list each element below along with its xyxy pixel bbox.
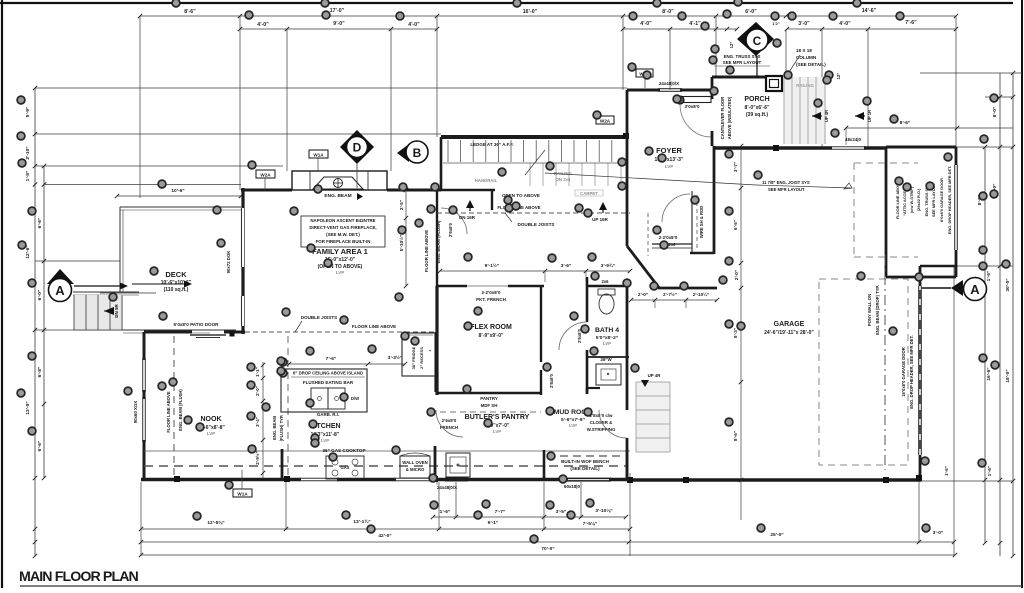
svg-text:GARAGE: GARAGE bbox=[774, 321, 805, 328]
wall oven box bbox=[400, 456, 430, 478]
svg-text:2x6: 2x6 bbox=[602, 279, 610, 284]
svg-text:CANTILEVER FLOOR: CANTILEVER FLOOR bbox=[720, 97, 725, 140]
svg-text:SEE MFR LAYOUT: SEE MFR LAYOUT bbox=[768, 187, 805, 192]
svg-text:10’-6”: 10’-6” bbox=[171, 188, 185, 194]
svg-text:1’-8”: 1’-8” bbox=[25, 170, 31, 181]
svg-text:3’-9¾”: 3’-9¾” bbox=[601, 262, 616, 269]
stair bottom dimension line bbox=[440, 270, 630, 272]
svg-text:(SEE DETAIL): (SEE DETAIL) bbox=[570, 466, 600, 471]
svg-text:NAPOLEON ASCENT B42NTRE: NAPOLEON ASCENT B42NTRE bbox=[310, 218, 375, 223]
svg-text:GARB. R.I.: GARB. R.I. bbox=[317, 412, 339, 417]
svg-text:ENG. BEAM (DROP) TYP.: ENG. BEAM (DROP) TYP. bbox=[875, 285, 880, 335]
svg-text:6’-6”: 6’-6” bbox=[37, 440, 43, 451]
svg-text:2-2’0x8’0: 2-2’0x8’0 bbox=[659, 235, 678, 240]
svg-text:ABOVE (INSULATED): ABOVE (INSULATED) bbox=[727, 96, 732, 139]
svg-text:3’0x8’0: 3’0x8’0 bbox=[684, 104, 700, 109]
sheet border top bbox=[0, 2, 1013, 4]
svg-text:8’-6”: 8’-6” bbox=[733, 431, 738, 441]
bath dim row bbox=[631, 299, 717, 301]
butler sink bbox=[446, 453, 470, 477]
toilet bbox=[598, 289, 615, 295]
svg-text:FLOOR LINE ABOVE: FLOOR LINE ABOVE bbox=[424, 230, 429, 272]
svg-text:UP 1R: UP 1R bbox=[867, 110, 872, 122]
family-flex dimension column bbox=[405, 190, 407, 286]
svg-text:ENG. DROP HEADER, SEE MFR DET.: ENG. DROP HEADER, SEE MFR DET. bbox=[909, 335, 914, 408]
top dimension line row2 centre bbox=[623, 28, 737, 30]
svg-text:PORCH: PORCH bbox=[744, 96, 769, 103]
svg-text:4’-0”: 4’-0” bbox=[257, 22, 269, 28]
bath south wall bbox=[586, 388, 589, 394]
svg-text:3’-0”: 3’-0” bbox=[798, 21, 810, 27]
svg-text:W.STRIPPING: W.STRIPPING bbox=[587, 427, 616, 432]
section marker D bbox=[340, 130, 374, 164]
svg-text:ENG. BEAM (FLUSH): ENG. BEAM (FLUSH) bbox=[436, 220, 441, 263]
bottom dimension line 4 bbox=[141, 554, 955, 556]
svg-text:1’2”: 1’2” bbox=[772, 21, 780, 26]
garage right stall walls bbox=[885, 147, 888, 277]
left inner dimension line bbox=[43, 166, 45, 478]
garage attic dashed rectangle bbox=[819, 279, 908, 465]
svg-text:2’6x8’0: 2’6x8’0 bbox=[442, 418, 457, 423]
section marker C bbox=[737, 22, 774, 56]
svg-text:14’-6”: 14’-6” bbox=[862, 8, 877, 14]
deck stairs DN 5R bbox=[73, 291, 139, 293]
svg-text:2’6x8’0: 2’6x8’0 bbox=[448, 222, 453, 237]
section marker A left bbox=[47, 269, 74, 284]
svg-text:24’-6”/19’-11”x 28’-0”: 24’-6”/19’-11”x 28’-0” bbox=[764, 330, 814, 336]
svg-text:30’-0”: 30’-0” bbox=[1005, 278, 1011, 292]
right dimension line inner bbox=[984, 147, 986, 543]
svg-text:D/W: D/W bbox=[351, 396, 359, 401]
svg-text:(SEE DETAIL): (SEE DETAIL) bbox=[796, 62, 826, 67]
deck dimension 10-6 bbox=[117, 195, 241, 197]
svg-text:16’-0”: 16’-0” bbox=[523, 9, 538, 15]
svg-text:3’-6”: 3’-6” bbox=[561, 263, 572, 269]
svg-text:SEE MFR LAYOUT: SEE MFR LAYOUT bbox=[723, 60, 762, 65]
svg-text:W2A: W2A bbox=[600, 119, 611, 124]
family west window wall to deck bbox=[241, 188, 244, 208]
right dimension line mid bbox=[999, 73, 1001, 556]
svg-text:A: A bbox=[55, 283, 65, 298]
svg-text:WALL OVEN: WALL OVEN bbox=[402, 460, 427, 465]
svg-text:DIRECT-VENT GAS FIREPLACE,: DIRECT-VENT GAS FIREPLACE, bbox=[309, 225, 376, 230]
svg-text:3’-5”: 3’-5” bbox=[556, 509, 567, 515]
front door leaf bbox=[682, 97, 711, 103]
extension lines from top dims bbox=[139, 16, 141, 198]
stair west wall bbox=[440, 137, 443, 190]
butler window bbox=[445, 477, 468, 479]
svg-text:LEDGE AT 36” A.F.F.: LEDGE AT 36” A.F.F. bbox=[470, 142, 513, 147]
svg-text:3’-0”: 3’-0” bbox=[933, 530, 944, 536]
flex south wall bbox=[437, 392, 541, 395]
svg-text:(FLUSH) TYP.: (FLUSH) TYP. bbox=[279, 415, 284, 442]
svg-text:9’-1½”: 9’-1½” bbox=[485, 262, 500, 269]
svg-text:LVP: LVP bbox=[207, 431, 215, 436]
svg-text:8’-6”: 8’-6” bbox=[184, 9, 196, 15]
reference line upper bbox=[35, 87, 627, 89]
svg-text:UP 16R: UP 16R bbox=[592, 217, 608, 222]
svg-text:24x48|0/X: 24x48|0/X bbox=[437, 485, 457, 490]
mud bench walls bbox=[543, 450, 546, 481]
svg-text:12’-5⅜”: 12’-5⅜” bbox=[207, 520, 225, 526]
svg-text:FAMILY AREA 1: FAMILY AREA 1 bbox=[312, 247, 368, 256]
reference line deck mid bbox=[35, 260, 120, 262]
island sink bbox=[311, 388, 328, 409]
svg-text:12”: 12” bbox=[729, 42, 734, 49]
section marker B bbox=[397, 144, 409, 162]
svg-text:D: D bbox=[353, 141, 362, 155]
svg-text:25’-0”: 25’-0” bbox=[770, 532, 784, 538]
foyer hall dashed bbox=[647, 213, 649, 256]
kitchen west beam post wall bbox=[281, 449, 284, 478]
porch west wall bbox=[711, 77, 714, 99]
flex east wall bbox=[540, 286, 542, 362]
svg-text:16’-6”: 16’-6” bbox=[986, 367, 992, 381]
svg-text:4’-0”: 4’-0” bbox=[640, 21, 652, 27]
deck lower edge line bbox=[100, 292, 156, 294]
foyer bay angled wall bbox=[627, 246, 660, 289]
section marker A right bbox=[951, 280, 963, 296]
svg-text:36” GAS COOKTOP: 36” GAS COOKTOP bbox=[322, 448, 365, 453]
svg-text:1’-6”: 1’-6” bbox=[440, 509, 451, 515]
family east wall bbox=[436, 190, 438, 286]
svg-text:FOYER: FOYER bbox=[656, 146, 682, 155]
svg-text:4’-1”: 4’-1” bbox=[689, 21, 701, 27]
svg-text:WIRE SH & ROD: WIRE SH & ROD bbox=[699, 206, 704, 239]
svg-text:5’-10½”: 5’-10½” bbox=[398, 235, 404, 252]
bottom dimension line 1 bbox=[433, 516, 626, 518]
svg-text:7’-6”: 7’-6” bbox=[326, 356, 337, 362]
svg-text:6’-5”: 6’-5” bbox=[733, 220, 738, 230]
counter line bbox=[144, 450, 630, 452]
deck platform outline bbox=[120, 206, 241, 208]
svg-text:W1A: W1A bbox=[237, 492, 248, 497]
porch steps railing bbox=[784, 77, 826, 144]
svg-text:2’-7½”: 2’-7½” bbox=[663, 291, 677, 297]
stall garage door bbox=[954, 165, 956, 250]
up 4r arrow porch bbox=[812, 112, 821, 120]
svg-text:8’-6”: 8’-6” bbox=[900, 120, 911, 126]
svg-text:11 7/8” ENG. JOIST SYS: 11 7/8” ENG. JOIST SYS bbox=[762, 180, 810, 185]
svg-text:FLOOR LINE ABOVE: FLOOR LINE ABOVE bbox=[166, 391, 171, 432]
svg-text:2’-5”: 2’-5” bbox=[399, 200, 404, 210]
svg-text:DECK: DECK bbox=[165, 270, 187, 279]
svg-text:90x72 DOK: 90x72 DOK bbox=[226, 250, 231, 274]
svg-text:3’-10⅛”: 3’-10⅛” bbox=[595, 508, 613, 514]
reference line deck upper bbox=[44, 184, 241, 186]
svg-text:5’-9”: 5’-9” bbox=[25, 106, 31, 117]
tag W1A bottom bbox=[233, 489, 252, 497]
svg-text:9’-1”: 9’-1” bbox=[488, 520, 499, 526]
garage NE wall bbox=[920, 265, 956, 267]
post at stair-foyer junction bbox=[623, 133, 629, 139]
svg-text:BUILT-IN WOF BENCH: BUILT-IN WOF BENCH bbox=[561, 459, 609, 464]
svg-text:90x60 XOX: 90x60 XOX bbox=[133, 401, 138, 423]
svg-text:13’-1¾”: 13’-1¾” bbox=[353, 518, 371, 525]
svg-text:CARPET: CARPET bbox=[580, 191, 598, 196]
svg-text:2’-10”: 2’-10” bbox=[25, 146, 31, 160]
front door arc bbox=[680, 104, 711, 137]
svg-text:13’-0”: 13’-0” bbox=[25, 401, 31, 415]
nook north wall and patio door bbox=[144, 331, 192, 334]
svg-text:1’-6”: 1’-6” bbox=[944, 466, 949, 476]
svg-text:3’-7”: 3’-7” bbox=[733, 162, 738, 172]
reference line deck top bbox=[35, 165, 283, 167]
svg-text:PANTRY: PANTRY bbox=[480, 396, 498, 401]
garage south wall bbox=[629, 478, 921, 481]
svg-text:2’8x8’0 c/w: 2’8x8’0 c/w bbox=[590, 413, 614, 418]
svg-text:HANDRAIL: HANDRAIL bbox=[475, 178, 498, 183]
floor line above dashed family south bbox=[245, 331, 437, 333]
svg-text:12”: 12” bbox=[836, 73, 841, 80]
svg-text:8’-0”: 8’-0” bbox=[992, 106, 998, 117]
bottom dimension line 2 bbox=[141, 528, 630, 530]
oven side wall stub bbox=[434, 446, 437, 479]
svg-text:3’-4”: 3’-4” bbox=[255, 417, 260, 427]
svg-text:B: B bbox=[413, 146, 422, 160]
svg-text:ENG. BEAM (FLUSH): ENG. BEAM (FLUSH) bbox=[178, 389, 183, 431]
flex room north wall with pocket door bbox=[437, 285, 467, 288]
foyer north wall with window bbox=[627, 89, 660, 92]
svg-text:4’-0”: 4’-0” bbox=[839, 21, 851, 27]
svg-text:24x48|0/X: 24x48|0/X bbox=[659, 81, 679, 86]
svg-text:RAILING: RAILING bbox=[796, 83, 814, 88]
svg-text:FLUSHED EATING BAR: FLUSHED EATING BAR bbox=[303, 380, 354, 385]
south exterior wall bbox=[141, 478, 301, 481]
svg-text:2-2’0x8’0: 2-2’0x8’0 bbox=[481, 290, 501, 295]
svg-text:18’-0”: 18’-0” bbox=[1005, 369, 1011, 383]
svg-text:2’-0”: 2’-0” bbox=[255, 386, 260, 396]
svg-text:LVP: LVP bbox=[569, 423, 577, 428]
svg-text:2’-0”: 2’-0” bbox=[638, 292, 648, 297]
fireplace note box bbox=[301, 216, 385, 247]
svg-text:LVP: LVP bbox=[493, 429, 501, 434]
right horizontal extensions bbox=[956, 146, 1013, 148]
svg-text:LVP: LVP bbox=[665, 164, 673, 169]
svg-text:8’-3”: 8’-3” bbox=[733, 328, 738, 338]
svg-text:48x24|0: 48x24|0 bbox=[845, 137, 861, 142]
sheet border left bbox=[1, 0, 3, 588]
svg-text:60x18|0: 60x18|0 bbox=[564, 484, 580, 489]
stair break line bbox=[525, 150, 545, 175]
svg-text:1’-6”: 1’-6” bbox=[987, 465, 993, 476]
svg-text:GAS: GAS bbox=[340, 465, 349, 470]
stair treads bbox=[447, 140, 449, 162]
svg-text:2’-9½”: 2’-9½” bbox=[255, 451, 260, 464]
foyer closet bottom double door wall bbox=[652, 243, 692, 245]
stair landing wall bbox=[437, 189, 495, 192]
svg-text:7’-7”: 7’-7” bbox=[495, 509, 506, 515]
bottom extension verticals bbox=[140, 482, 142, 556]
reference line mid bbox=[35, 133, 441, 135]
svg-text:A: A bbox=[970, 282, 980, 297]
garage steps up 4r bbox=[636, 382, 670, 452]
svg-text:FLOOR LINE ABOVE: FLOOR LINE ABOVE bbox=[352, 324, 396, 329]
svg-text:2” RECESS: 2” RECESS bbox=[419, 347, 424, 369]
svg-text:9’-0”: 9’-0” bbox=[333, 21, 345, 27]
foyer west wall bbox=[626, 90, 629, 246]
svg-text:2x6: 2x6 bbox=[669, 242, 677, 247]
svg-text:18 X 18: 18 X 18 bbox=[796, 48, 812, 53]
svg-text:W2A: W2A bbox=[260, 173, 271, 178]
svg-text:7’-5⅛”: 7’-5⅛” bbox=[583, 521, 598, 527]
svg-text:4’-0”: 4’-0” bbox=[408, 22, 420, 28]
svg-text:7’-6”: 7’-6” bbox=[905, 20, 917, 26]
svg-text:1’-1”: 1’-1” bbox=[255, 367, 260, 377]
top dimension line row2 right bbox=[787, 28, 956, 30]
svg-text:LVP: LVP bbox=[336, 270, 344, 275]
pony wall dash-dot bbox=[884, 255, 886, 470]
section cut line left extension bbox=[132, 283, 186, 285]
foyer east wall bbox=[713, 146, 716, 254]
section cut line left bbox=[74, 285, 126, 287]
svg-text:(39 sq.ft.): (39 sq.ft.) bbox=[746, 112, 769, 118]
fridge recess bbox=[402, 333, 435, 376]
svg-text:(110 sq.ft.): (110 sq.ft.) bbox=[164, 287, 189, 293]
svg-text:BATH 4: BATH 4 bbox=[595, 327, 619, 334]
island dim line bbox=[289, 363, 405, 365]
upper cabinet dashed bbox=[144, 465, 627, 467]
left outer dimension line bbox=[34, 88, 36, 556]
tag W2A bbox=[256, 170, 275, 178]
svg-text:8’0x8’0 GARAGE DOOR: 8’0x8’0 GARAGE DOOR bbox=[939, 178, 944, 222]
svg-text:6’0x8’0 PATIO DOOR: 6’0x8’0 PATIO DOOR bbox=[173, 322, 219, 327]
svg-text:PONY WALL ON: PONY WALL ON bbox=[867, 294, 872, 326]
sheet border right bbox=[1021, 0, 1023, 588]
porch north wall bbox=[712, 76, 766, 79]
svg-text:ENG. BEAM: ENG. BEAM bbox=[324, 193, 351, 199]
svg-text:DN 5R: DN 5R bbox=[114, 304, 119, 318]
svg-text:MDF SH: MDF SH bbox=[481, 403, 498, 408]
svg-text:DOUBLE JOISTS: DOUBLE JOISTS bbox=[301, 315, 337, 320]
bath north wall bbox=[587, 285, 629, 288]
nook west wall with windows bbox=[143, 332, 146, 360]
svg-text:8’-0”x6’-6”: 8’-0”x6’-6” bbox=[744, 105, 770, 111]
svg-text:(SEE M.W. DET.): (SEE M.W. DET.) bbox=[326, 232, 360, 237]
family area north wall bbox=[241, 189, 292, 192]
mud room east wall with garage door bbox=[626, 286, 629, 410]
svg-text:NOOK: NOOK bbox=[201, 416, 222, 423]
bath door arc bbox=[559, 322, 587, 350]
svg-text:UP 4R: UP 4R bbox=[824, 110, 829, 122]
bath mud west wall bbox=[586, 277, 589, 322]
svg-text:MAIN FLOOR PLAN: MAIN FLOOR PLAN bbox=[19, 569, 139, 585]
tag W2A foyer bbox=[596, 116, 614, 124]
svg-text:8’-0”: 8’-0” bbox=[662, 9, 674, 15]
svg-text:6” DROP CEILING ABOVE ISLAND: 6” DROP CEILING ABOVE ISLAND bbox=[293, 371, 363, 376]
fireplace enclosure bbox=[292, 171, 387, 190]
nook-kitchen dim column bbox=[262, 362, 264, 478]
garage upper attic dashed area bbox=[853, 163, 855, 257]
svg-text:6’-0”: 6’-0” bbox=[745, 9, 757, 15]
svg-text:W1A: W1A bbox=[313, 153, 324, 158]
svg-text:36” FRIDGE: 36” FRIDGE bbox=[411, 346, 416, 369]
garage east wall with garage door bbox=[919, 266, 922, 286]
svg-text:FOR FIREPLACE BUILT-IN: FOR FIREPLACE BUILT-IN bbox=[316, 239, 371, 244]
fireplace unit bbox=[313, 177, 363, 189]
mud dashed floor bbox=[547, 455, 622, 457]
svg-text:8’-9”x9’-0”: 8’-9”x9’-0” bbox=[478, 333, 504, 339]
svg-text:ENG. BEAM: ENG. BEAM bbox=[272, 416, 277, 440]
svg-text:FLEX ROOM: FLEX ROOM bbox=[470, 324, 512, 331]
svg-text:FLOOR LINE ABOVE: FLOOR LINE ABOVE bbox=[895, 180, 900, 219]
tag W1A bbox=[309, 150, 328, 158]
up 1r arrow bbox=[855, 112, 864, 120]
kitchen island bbox=[281, 369, 367, 412]
foyer south wall bbox=[660, 287, 717, 290]
svg-text:C: C bbox=[753, 34, 762, 48]
flex west wall bbox=[435, 286, 438, 395]
nook floor line dashed bbox=[173, 336, 175, 478]
svg-text:ON 2x4: ON 2x4 bbox=[556, 177, 571, 182]
svg-text:42’-0”: 42’-0” bbox=[378, 533, 392, 539]
svg-text:6’-0”: 6’-0” bbox=[37, 289, 43, 300]
svg-text:DOUBLE JOISTS: DOUBLE JOISTS bbox=[517, 222, 554, 227]
title underline bbox=[20, 585, 1022, 587]
reference line deck bottom bbox=[35, 329, 144, 331]
svg-text:2’-0”: 2’-0” bbox=[734, 270, 739, 280]
garage west dimension column bbox=[740, 146, 742, 520]
svg-text:1’-6”: 1’-6” bbox=[986, 270, 992, 281]
top dimension line row2 left bbox=[240, 28, 437, 30]
svg-text:LVP: LVP bbox=[321, 438, 329, 443]
svg-text:6’-8”: 6’-8” bbox=[37, 366, 43, 377]
svg-text:BUTLER'S PANTRY: BUTLER'S PANTRY bbox=[465, 414, 530, 421]
porch column 18x18 bbox=[766, 76, 782, 91]
svg-text:(29x22 R.O.): (29x22 R.O.) bbox=[916, 188, 921, 211]
svg-text:PKT. FRENCH: PKT. FRENCH bbox=[476, 297, 506, 302]
svg-text:70’-0”: 70’-0” bbox=[541, 546, 555, 552]
svg-text:UP 4R: UP 4R bbox=[648, 373, 662, 378]
tag W1B bbox=[636, 69, 653, 77]
svg-text:3’-3½”: 3’-3½” bbox=[388, 354, 403, 361]
svg-text:2’8x8’0: 2’8x8’0 bbox=[549, 373, 554, 388]
bottom dimension line 3 bbox=[141, 541, 954, 543]
foyer closet bbox=[690, 252, 714, 254]
svg-text:6’-6”: 6’-6” bbox=[37, 217, 43, 228]
kitchen-butler wall bbox=[435, 332, 437, 376]
right dimension line outer bbox=[1012, 73, 1014, 556]
bench window bbox=[544, 478, 567, 481]
front wall y147 bbox=[714, 146, 832, 149]
stair ledge wall bbox=[441, 135, 627, 139]
top dimension line row1 bbox=[140, 15, 956, 17]
svg-text:DN 16R: DN 16R bbox=[459, 215, 476, 220]
svg-text:17’-0”: 17’-0” bbox=[330, 8, 345, 14]
svg-text:2’-10¼”: 2’-10¼” bbox=[693, 291, 710, 297]
svg-text:16’0x8’0 GARAGE DOOR: 16’0x8’0 GARAGE DOOR bbox=[901, 347, 906, 397]
svg-text:LVP: LVP bbox=[603, 341, 611, 346]
svg-text:& MICRO: & MICRO bbox=[406, 467, 425, 472]
svg-text:ENG. DROP HEADER, SEE MFR DET.: ENG. DROP HEADER, SEE MFR DET. bbox=[947, 166, 952, 234]
